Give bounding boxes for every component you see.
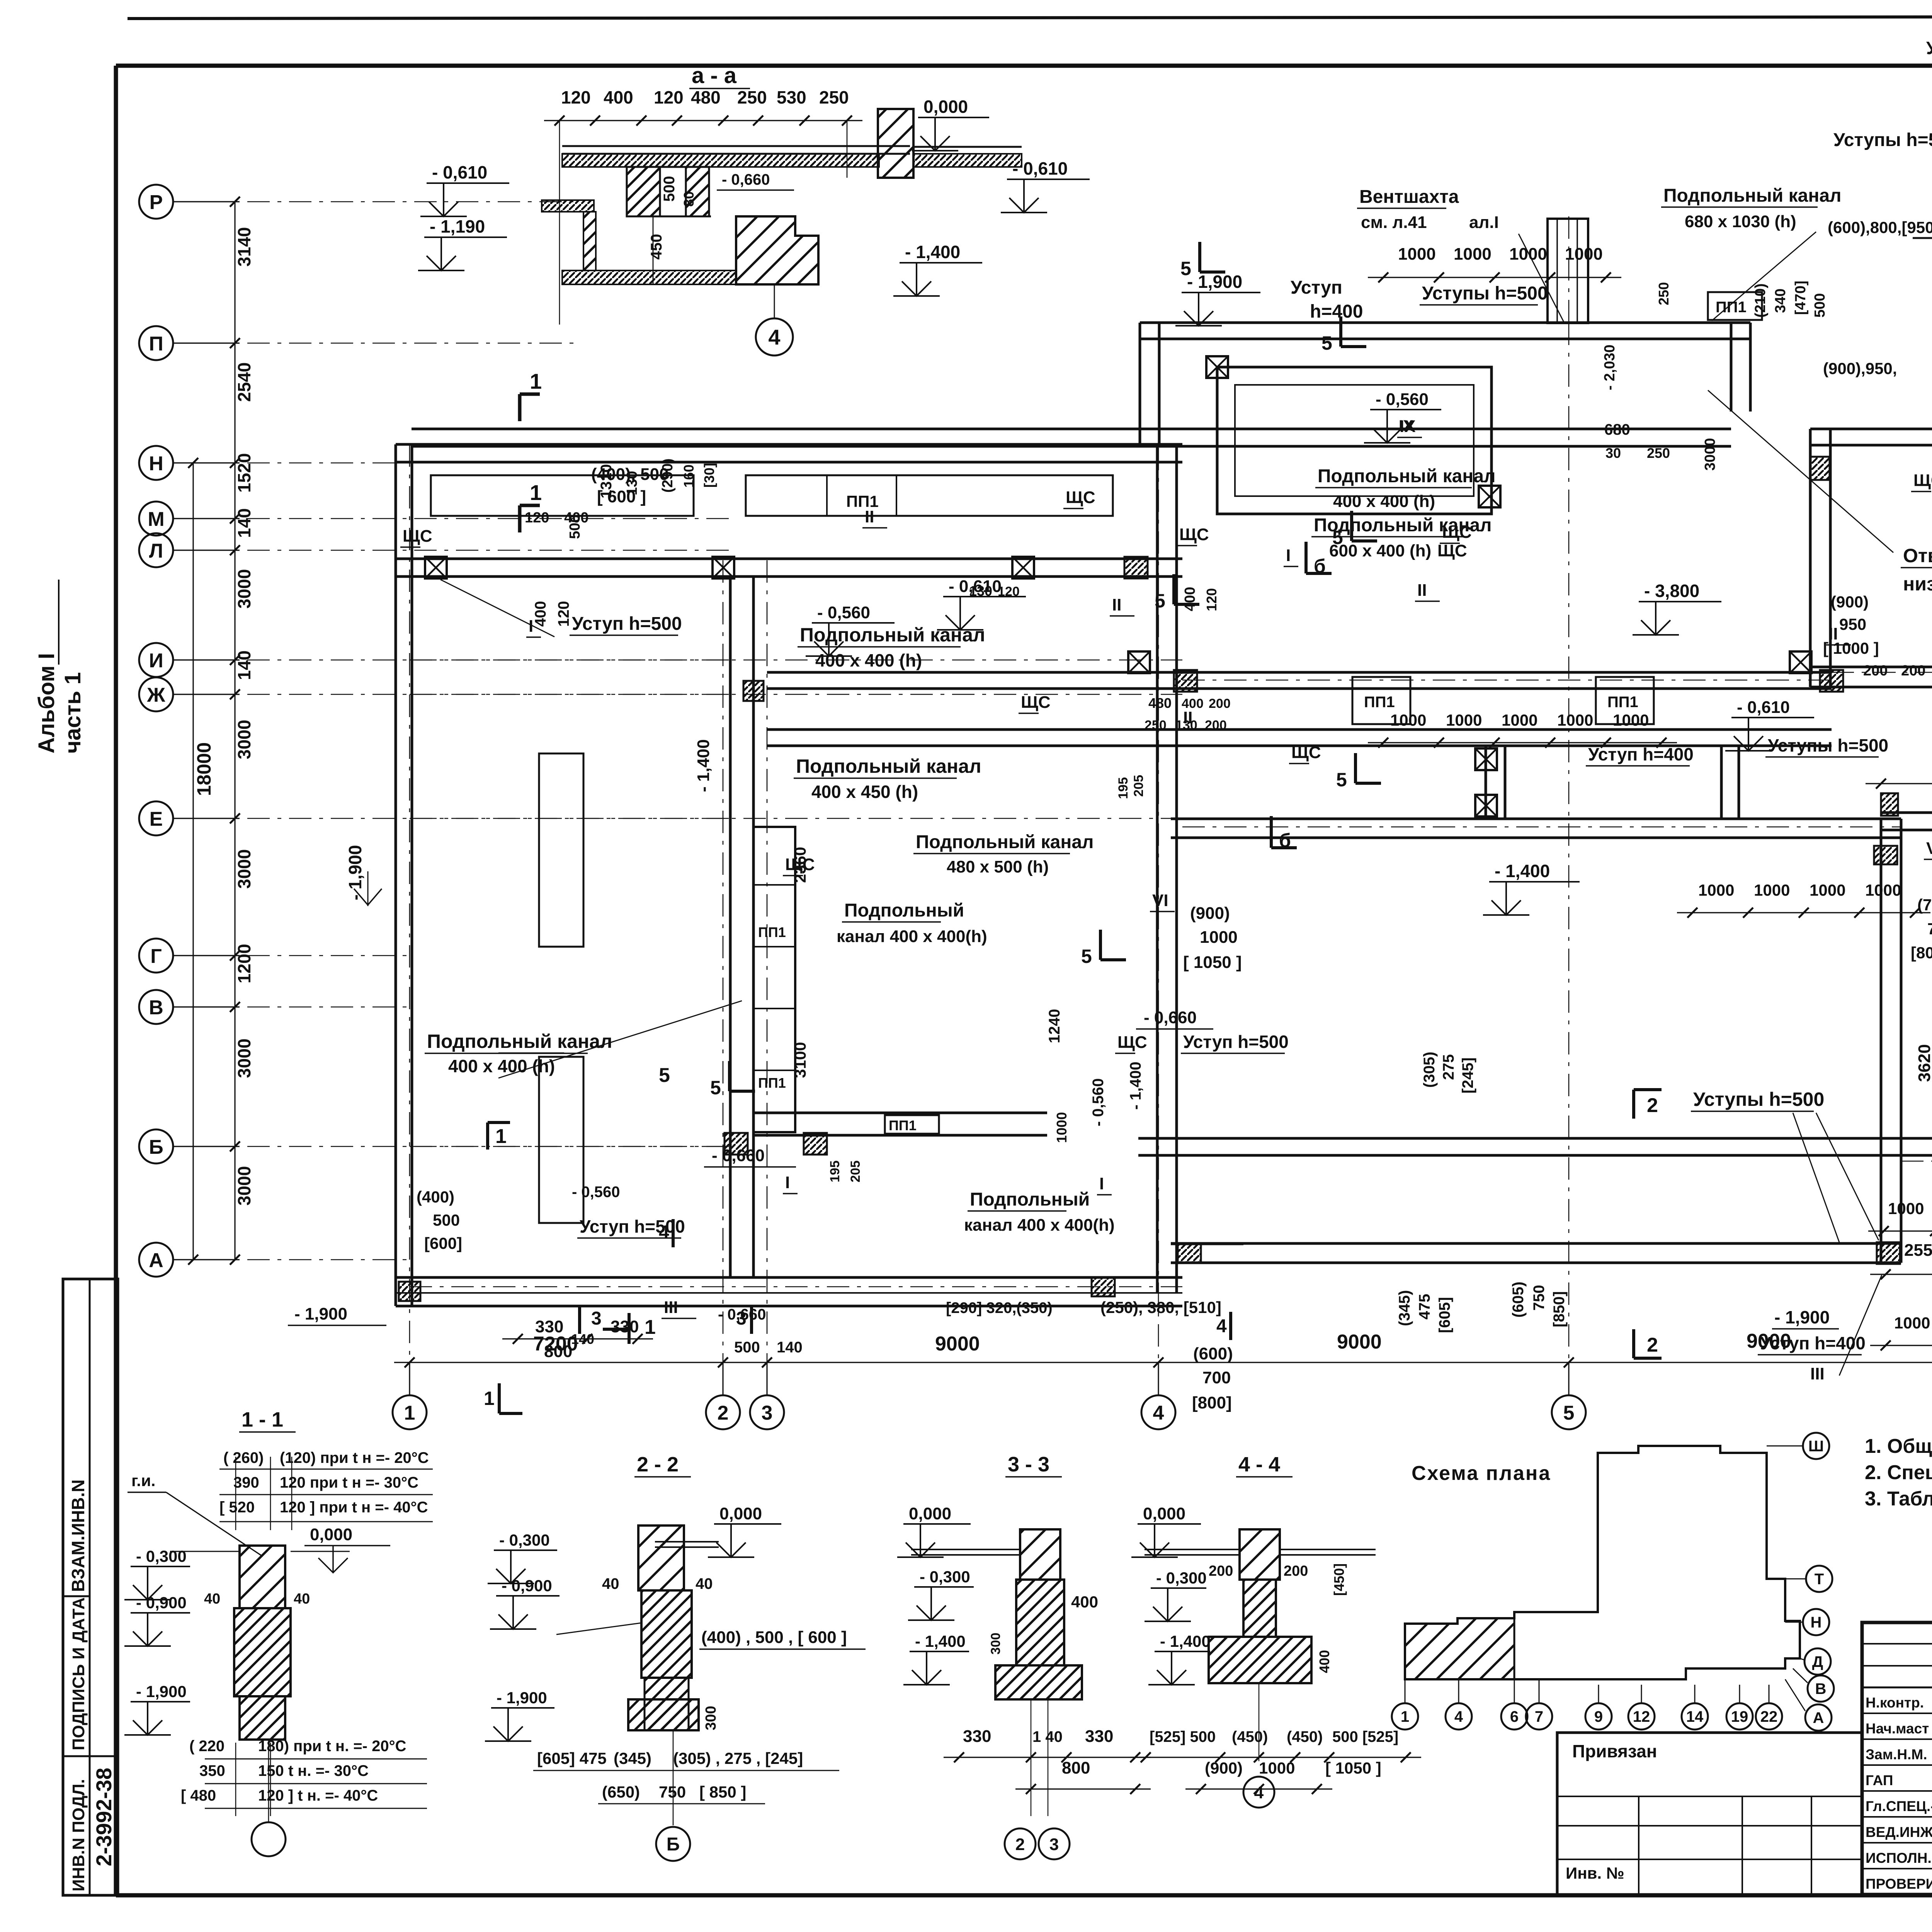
- right block walls: [1810, 428, 1932, 430]
- svg-text:Подпольный: Подпольный: [844, 900, 964, 921]
- 1-1 column: [240, 1546, 285, 1608]
- svg-text:- 0,560: - 0,560: [572, 1184, 620, 1201]
- svg-text:[ 520: [ 520: [219, 1499, 255, 1516]
- svg-text:500: 500: [734, 1339, 760, 1356]
- svg-text:3140: 3140: [234, 227, 254, 267]
- canal horizontal left wing: [753, 1112, 1047, 1114]
- svg-text:1310: 1310: [598, 464, 615, 498]
- svg-text:1: 1: [1401, 1708, 1409, 1725]
- svg-text:Вентшахта: Вентшахта: [1359, 187, 1459, 207]
- svg-text:В: В: [149, 997, 163, 1019]
- svg-text:Уступ h=500: Уступ h=500: [1183, 1032, 1289, 1052]
- top-center block left wall: [1139, 323, 1141, 444]
- svg-text:Ш: Ш: [1808, 1438, 1824, 1455]
- svg-text:Подпольный канал: Подпольный канал: [1663, 185, 1842, 206]
- svg-text:400: 400: [1071, 1593, 1098, 1611]
- svg-text:(345): (345): [1396, 1290, 1413, 1326]
- svg-text:Р: Р: [150, 191, 163, 214]
- svg-text:1000: 1000: [1390, 711, 1426, 729]
- bottom axis circles: [393, 1395, 427, 1429]
- svg-text:(450): (450): [1287, 1728, 1323, 1745]
- svg-text:(650): (650): [602, 1783, 640, 1801]
- schema circles bottom: [1392, 1703, 1418, 1730]
- svg-text:(400): (400): [417, 1188, 454, 1206]
- svg-text:1000: 1000: [1865, 881, 1901, 899]
- svg-text:Г: Г: [150, 945, 162, 968]
- svg-text:750: 750: [1927, 920, 1932, 938]
- svg-text:1240: 1240: [1046, 1009, 1063, 1043]
- svg-text:480 x 500 (h): 480 x 500 (h): [947, 857, 1049, 876]
- svg-text:[245]: [245]: [1459, 1058, 1476, 1094]
- svg-text:1000: 1000: [1810, 881, 1845, 899]
- svg-text:1000: 1000: [1509, 245, 1547, 264]
- svg-text:М: М: [148, 508, 164, 531]
- svg-text:I: I: [1286, 546, 1291, 565]
- svg-text:- 0,660: - 0,660: [722, 171, 770, 188]
- svg-text:3000: 3000: [1702, 438, 1718, 471]
- svg-text:4: 4: [768, 325, 780, 349]
- svg-text:низ на отм.-2,030: низ на отм.-2,030: [1903, 573, 1932, 595]
- svg-text:300: 300: [988, 1633, 1003, 1655]
- svg-text:500: 500: [661, 176, 678, 202]
- svg-text:180) при t н. =- 20°С: 180) при t н. =- 20°С: [258, 1738, 406, 1755]
- svg-text:200: 200: [1205, 718, 1227, 733]
- corridor pads: [431, 475, 694, 516]
- svg-text:200: 200: [1901, 663, 1925, 679]
- svg-text:(900): (900): [1831, 593, 1869, 611]
- right wing: [1881, 811, 1932, 814]
- svg-text:600 x 400 (h): 600 x 400 (h): [1329, 541, 1431, 560]
- svg-text:Альбом I: Альбом I: [34, 653, 59, 753]
- axis4 wall vertical: [1156, 444, 1159, 1293]
- svg-text:А: А: [149, 1249, 163, 1272]
- svg-text:Е: Е: [150, 808, 163, 830]
- a-a footing: [736, 216, 818, 284]
- svg-text:5: 5: [1155, 590, 1165, 612]
- svg-text:3. Таблицу расчетных нагрузок: 3. Таблицу расчетных нагрузок см. л. 39: [1865, 1488, 1932, 1510]
- svg-text:1000: 1000: [1454, 245, 1492, 264]
- svg-text:1520: 1520: [234, 453, 254, 493]
- hall: [1171, 818, 1901, 820]
- svg-text:5: 5: [1332, 527, 1343, 548]
- svg-text:ЩС: ЩС: [1442, 523, 1472, 542]
- hall connectors: [1485, 746, 1487, 819]
- svg-text:2-3992-38: 2-3992-38: [92, 1768, 116, 1866]
- top-center block right step: [1730, 323, 1733, 412]
- svg-text:0,000: 0,000: [310, 1525, 352, 1544]
- a-a axis circle 4: [774, 284, 775, 318]
- left margin stamp strip: [63, 1279, 118, 1895]
- corridor pier boxes: [425, 557, 447, 578]
- svg-text:4: 4: [1254, 1783, 1264, 1802]
- svg-text:3: 3: [736, 1308, 747, 1329]
- svg-text:Уступы h=500: Уступы h=500: [1926, 38, 1932, 58]
- svg-text:950: 950: [1839, 615, 1866, 633]
- svg-text:(600),800,[950]: (600),800,[950]: [1828, 218, 1932, 236]
- svg-text:- 1,900: - 1,900: [1187, 272, 1242, 292]
- svg-text:3000: 3000: [234, 569, 254, 609]
- svg-text:ЩС: ЩС: [403, 527, 432, 546]
- svg-text:5: 5: [1180, 258, 1191, 279]
- svg-text:1000: 1000: [1754, 881, 1790, 899]
- svg-text:195: 195: [1116, 777, 1131, 799]
- svg-text:Н: Н: [1811, 1614, 1822, 1631]
- svg-text:- 0,610: - 0,610: [1012, 158, 1068, 179]
- svg-text:П: П: [149, 333, 163, 355]
- svg-text:- 0,560: - 0,560: [1090, 1078, 1107, 1126]
- svg-text:ЩС: ЩС: [1437, 541, 1467, 560]
- svg-text:500: 500: [433, 1211, 460, 1229]
- privyazan box: [1557, 1733, 1862, 1895]
- svg-text:Уступы h=500: Уступы h=500: [1422, 283, 1548, 304]
- svg-text:II: II: [1828, 624, 1838, 643]
- svg-text:1: 1: [530, 480, 542, 505]
- svg-text:330: 330: [611, 1317, 639, 1336]
- svg-text:[30]: [30]: [701, 463, 717, 488]
- svg-text:400: 400: [604, 87, 633, 107]
- svg-text:2: 2: [718, 1402, 729, 1424]
- svg-text:40: 40: [602, 1575, 619, 1592]
- svg-text:- 1,900: - 1,900: [136, 1682, 187, 1701]
- svg-text:Нач.маст: Нач.маст: [1866, 1721, 1929, 1736]
- svg-text:- 1,400: - 1,400: [1127, 1061, 1144, 1110]
- svg-text:4: 4: [659, 1222, 669, 1243]
- svg-text:(120) при t н =- 20°С: (120) при t н =- 20°С: [280, 1449, 429, 1466]
- left wing wall bottom: [396, 1276, 1182, 1279]
- svg-text:400: 400: [1316, 1650, 1332, 1673]
- section cut marks: [520, 394, 540, 421]
- svg-text:[ 480: [ 480: [181, 1787, 216, 1804]
- svg-text:1: 1: [484, 1388, 495, 1409]
- a-a left step: [542, 200, 594, 212]
- svg-text:г.и.: г.и.: [131, 1471, 155, 1490]
- svg-text:часть 1: часть 1: [60, 672, 85, 753]
- svg-text:ИСПОЛН.: ИСПОЛН.: [1866, 1850, 1932, 1866]
- svg-text:400 x 400 (h): 400 x 400 (h): [448, 1056, 555, 1076]
- svg-text:ЩС: ЩС: [1179, 525, 1209, 544]
- svg-text:5: 5: [1081, 946, 1092, 967]
- svg-text:ВЕД.ИНЖ: ВЕД.ИНЖ: [1866, 1824, 1932, 1840]
- svg-text:200: 200: [1863, 663, 1888, 679]
- a-a pier: [878, 109, 913, 178]
- svg-text:- 0,900: - 0,900: [136, 1594, 187, 1612]
- inner canal rectangle: [1217, 367, 1492, 514]
- svg-text:(900): (900): [1190, 904, 1230, 923]
- svg-text:ПП1: ПП1: [1607, 694, 1638, 711]
- svg-text:300: 300: [703, 1706, 719, 1730]
- svg-text:h=400: h=400: [1310, 301, 1363, 322]
- svg-text:120: 120: [654, 87, 684, 107]
- svg-text:II: II: [1112, 595, 1121, 614]
- bottom dimension line: [394, 1362, 1932, 1363]
- svg-text:- 0,900: - 0,900: [502, 1577, 552, 1595]
- svg-text:800: 800: [1062, 1759, 1090, 1777]
- svg-text:120: 120: [561, 87, 591, 107]
- svg-text:4: 4: [1153, 1402, 1164, 1424]
- svg-text:- 1,900: - 1,900: [294, 1304, 347, 1323]
- svg-text:А: А: [1813, 1709, 1824, 1726]
- svg-text:ПОДПИСЬ И ДАТА: ПОДПИСЬ И ДАТА: [69, 1597, 88, 1750]
- svg-text:1 - 1: 1 - 1: [241, 1408, 283, 1431]
- svg-text:- 3,800: - 3,800: [1644, 581, 1699, 601]
- left wing outer wall left: [395, 444, 397, 1306]
- svg-text:3000: 3000: [234, 1039, 254, 1078]
- svg-text:5: 5: [1336, 769, 1347, 791]
- svg-text:(605): (605): [1510, 1282, 1527, 1318]
- svg-text:а - а: а - а: [692, 63, 737, 88]
- svg-text:Подпольный: Подпольный: [970, 1189, 1090, 1210]
- svg-text:200: 200: [1284, 1563, 1308, 1579]
- svg-text:390: 390: [233, 1474, 259, 1491]
- svg-text:- 0,610: - 0,610: [1737, 698, 1790, 717]
- svg-text:VI: VI: [1152, 891, 1168, 910]
- svg-text:3000: 3000: [234, 720, 254, 759]
- svg-text:ЩС: ЩС: [785, 855, 815, 874]
- svg-text:1000: 1000: [1200, 928, 1238, 947]
- svg-text:30: 30: [1605, 445, 1621, 461]
- PP1 box top: [1708, 292, 1762, 320]
- svg-text:1. Общие примечания см. л. 39: 1. Общие примечания см. л. 39: [1865, 1435, 1932, 1458]
- svg-text:I: I: [785, 1173, 790, 1192]
- svg-text:2: 2: [1647, 1094, 1658, 1117]
- svg-text:3100: 3100: [791, 1042, 809, 1078]
- svg-text:III: III: [664, 1298, 678, 1317]
- svg-text:1000: 1000: [1894, 1314, 1930, 1332]
- svg-text:(290): (290): [660, 458, 676, 493]
- svg-text:750: 750: [1531, 1285, 1548, 1311]
- svg-text:1000: 1000: [1259, 1759, 1295, 1777]
- vent shaft: [1548, 219, 1588, 323]
- svg-text:ЩС: ЩС: [1066, 488, 1095, 507]
- svg-text:3620: 3620: [1915, 1044, 1932, 1082]
- a-a slabs: [562, 145, 910, 147]
- svg-text:140: 140: [777, 1339, 803, 1356]
- svg-text:- 0,610: - 0,610: [432, 162, 487, 182]
- svg-text:480: 480: [691, 87, 721, 107]
- left wing wall top row H: [396, 443, 1182, 446]
- svg-text:(305) , 275 , [245]: (305) , 275 , [245]: [673, 1749, 803, 1767]
- svg-text:140: 140: [234, 508, 254, 538]
- svg-text:ЩС: ЩС: [1021, 693, 1051, 712]
- top-center block top wall: [1140, 321, 1750, 324]
- svg-text:500 [525]: 500 [525]: [1332, 1728, 1398, 1745]
- svg-text:500: 500: [567, 515, 583, 539]
- svg-text:Д: Д: [1812, 1653, 1823, 1670]
- svg-text:ЩС: ЩС: [1913, 471, 1932, 490]
- svg-text:2550: 2550: [1904, 1241, 1932, 1260]
- svg-text:Уступы h=500: Уступы h=500: [1693, 1088, 1824, 1110]
- svg-text:Инв. №: Инв. №: [1566, 1864, 1624, 1882]
- svg-text:160: 160: [681, 464, 697, 488]
- svg-text:40: 40: [204, 1591, 220, 1607]
- svg-text:475: 475: [1416, 1294, 1433, 1320]
- svg-text:200: 200: [1209, 696, 1231, 711]
- svg-text:[850]: [850]: [1551, 1291, 1568, 1327]
- svg-text:680: 680: [1604, 421, 1630, 438]
- pier bottom walls: [1877, 1242, 1900, 1264]
- svg-text:Ж: Ж: [147, 684, 166, 706]
- svg-text:II: II: [865, 507, 874, 526]
- svg-text:2 - 2: 2 - 2: [637, 1453, 679, 1476]
- svg-text:Уступы h=500: Уступы h=500: [1833, 130, 1932, 150]
- svg-text:В: В: [1815, 1680, 1827, 1697]
- svg-text:ПП1: ПП1: [758, 1075, 786, 1091]
- svg-text:275: 275: [1440, 1054, 1457, 1080]
- svg-text:3: 3: [591, 1308, 602, 1329]
- svg-text:400 x 450 (h): 400 x 450 (h): [811, 782, 918, 802]
- svg-text:500: 500: [1812, 293, 1828, 318]
- svg-text:2540: 2540: [234, 362, 254, 402]
- svg-text:(450): (450): [1232, 1728, 1268, 1745]
- svg-text:- 1,900: - 1,900: [1774, 1307, 1830, 1327]
- svg-text:- 0,660: - 0,660: [712, 1146, 765, 1165]
- svg-text:5: 5: [1563, 1402, 1575, 1424]
- svg-text:5: 5: [710, 1077, 721, 1099]
- svg-text:(900),950,: (900),950,: [1823, 359, 1897, 378]
- svg-text:3000: 3000: [234, 849, 254, 889]
- svg-text:1000: 1000: [1698, 881, 1734, 899]
- svg-text:9000: 9000: [935, 1333, 980, 1355]
- svg-text:Подпольный канал: Подпольный канал: [916, 832, 1094, 852]
- svg-text:0,000: 0,000: [909, 1504, 951, 1523]
- svg-text:9: 9: [1594, 1708, 1603, 1725]
- svg-text:Уступ h=400: Уступ h=400: [1588, 744, 1694, 764]
- svg-text:1: 1: [495, 1125, 507, 1148]
- svg-text:14: 14: [1686, 1708, 1704, 1725]
- svg-text:700: 700: [1202, 1368, 1231, 1387]
- svg-text:IX: IX: [1400, 417, 1416, 436]
- svg-text:- 0,560: - 0,560: [817, 603, 870, 622]
- axis dash lines: [247, 201, 580, 202]
- svg-text:0,000: 0,000: [719, 1504, 762, 1523]
- svg-text:(900): (900): [1205, 1759, 1243, 1777]
- svg-text:Л: Л: [149, 540, 163, 562]
- svg-text:ЩС: ЩС: [1291, 743, 1321, 762]
- left dimension line: [234, 202, 235, 1260]
- svg-text:ПП1: ПП1: [889, 1117, 917, 1133]
- svg-text:- 1,400: - 1,400: [915, 1632, 966, 1650]
- canal column left wing: [753, 827, 795, 1132]
- svg-text:530: 530: [777, 87, 806, 107]
- svg-text:120: 120: [555, 601, 572, 627]
- svg-text:680 x 1030 (h): 680 x 1030 (h): [1685, 212, 1796, 231]
- svg-text:ПП1: ПП1: [758, 924, 786, 940]
- svg-text:II: II: [1183, 708, 1192, 727]
- svg-text:3: 3: [1049, 1835, 1059, 1854]
- svg-text:Н.контр.: Н.контр.: [1866, 1695, 1924, 1711]
- svg-text:- 0,300: - 0,300: [499, 1531, 550, 1549]
- svg-text:[ 850 ]: [ 850 ]: [699, 1783, 746, 1801]
- svg-text:1000: 1000: [1613, 711, 1649, 729]
- svg-text:9000: 9000: [1337, 1331, 1382, 1353]
- svg-text:2: 2: [1647, 1334, 1658, 1356]
- svg-text:205: 205: [1131, 775, 1146, 797]
- svg-text:130: 130: [624, 471, 640, 495]
- svg-text:- 0,300: - 0,300: [136, 1547, 187, 1565]
- svg-text:ПП1: ПП1: [1364, 694, 1395, 711]
- svg-text:- 0,300: - 0,300: [1156, 1569, 1207, 1587]
- svg-text:[525] 500: [525] 500: [1150, 1728, 1216, 1745]
- svg-text:Подпольный канал: Подпольный канал: [1318, 466, 1496, 486]
- svg-text:130: 130: [969, 583, 992, 599]
- svg-text:150 t н. =- 30°С: 150 t н. =- 30°С: [258, 1762, 369, 1779]
- svg-text:[ 1050 ]: [ 1050 ]: [1325, 1759, 1381, 1777]
- corridor wall row L: [396, 558, 1182, 560]
- svg-text:1000: 1000: [1565, 245, 1603, 264]
- svg-text:- 1,900: - 1,900: [497, 1689, 547, 1707]
- svg-text:III: III: [1810, 1364, 1825, 1383]
- svg-text:120 ] при t н =- 40°С: 120 ] при t н =- 40°С: [280, 1499, 428, 1516]
- svg-text:1: 1: [645, 1316, 656, 1338]
- svg-text:120: 120: [525, 510, 549, 526]
- svg-text:1: 1: [404, 1402, 415, 1424]
- svg-text:450: 450: [648, 234, 665, 260]
- svg-text:[470]: [470]: [1793, 281, 1809, 315]
- svg-text:4 - 4: 4 - 4: [1238, 1453, 1280, 1476]
- svg-text:5: 5: [659, 1064, 670, 1087]
- svg-text:3 - 3: 3 - 3: [1008, 1453, 1049, 1476]
- svg-text:18000: 18000: [193, 742, 215, 796]
- svg-text:[290] 320,(350): [290] 320,(350): [946, 1299, 1053, 1316]
- svg-text:250: 250: [819, 87, 849, 107]
- svg-text:120: 120: [1204, 588, 1219, 611]
- svg-text:0,000: 0,000: [923, 97, 968, 117]
- svg-text:ал.I: ал.I: [1469, 213, 1499, 232]
- svg-text:- 1,400: - 1,400: [1160, 1632, 1211, 1650]
- svg-text:330: 330: [963, 1727, 991, 1746]
- svg-text:400: 400: [532, 601, 549, 627]
- svg-text:(250), 380, [510]: (250), 380, [510]: [1100, 1298, 1221, 1316]
- I/Zh canal walls: [767, 671, 1832, 674]
- a-a inner box: [627, 167, 660, 216]
- svg-text:[ 1050 ]: [ 1050 ]: [1183, 953, 1242, 972]
- svg-text:1000: 1000: [1446, 711, 1482, 729]
- drawing frame: [116, 64, 1932, 68]
- svg-text:I: I: [529, 617, 533, 636]
- svg-text:канал 400 x 400(h): канал 400 x 400(h): [837, 927, 987, 946]
- svg-text:[450]: [450]: [1331, 1563, 1347, 1596]
- svg-text:Уступы h=500: Уступы h=500: [1768, 735, 1888, 755]
- svg-text:Т: Т: [1815, 1571, 1824, 1588]
- svg-text:[605] 475: [605] 475: [537, 1749, 607, 1767]
- svg-text:140: 140: [234, 650, 254, 680]
- svg-text:250: 250: [737, 87, 767, 107]
- svg-text:Подпольный канал: Подпольный канал: [796, 755, 981, 777]
- svg-text:Н: Н: [149, 452, 163, 475]
- svg-text:(210): (210): [1752, 283, 1769, 318]
- svg-text:Подпольный канал: Подпольный канал: [427, 1031, 612, 1052]
- paper top edge: [128, 16, 1932, 19]
- svg-text:22: 22: [1760, 1708, 1778, 1725]
- svg-text:Б: Б: [149, 1136, 163, 1158]
- svg-text:Привязан: Привязан: [1572, 1741, 1657, 1761]
- schema circles right: [1803, 1433, 1829, 1459]
- svg-text:(600): (600): [1193, 1344, 1233, 1363]
- svg-text:250: 250: [1145, 718, 1167, 733]
- svg-text:12: 12: [1633, 1708, 1650, 1725]
- axis 2-3 wall: [729, 577, 732, 1277]
- svg-text:1000: 1000: [1557, 711, 1593, 729]
- svg-text:ГАП: ГАП: [1866, 1772, 1893, 1788]
- svg-text:- 2,030: - 2,030: [1602, 345, 1618, 390]
- svg-text:1000: 1000: [1398, 245, 1436, 264]
- svg-text:ЩС: ЩС: [1117, 1033, 1147, 1052]
- svg-text:2: 2: [1015, 1835, 1025, 1854]
- svg-text:- 1,400: - 1,400: [1495, 861, 1550, 881]
- svg-text:- 0,300: - 0,300: [920, 1568, 970, 1586]
- svg-text:250: 250: [1647, 445, 1670, 461]
- svg-text:Б: Б: [667, 1834, 680, 1855]
